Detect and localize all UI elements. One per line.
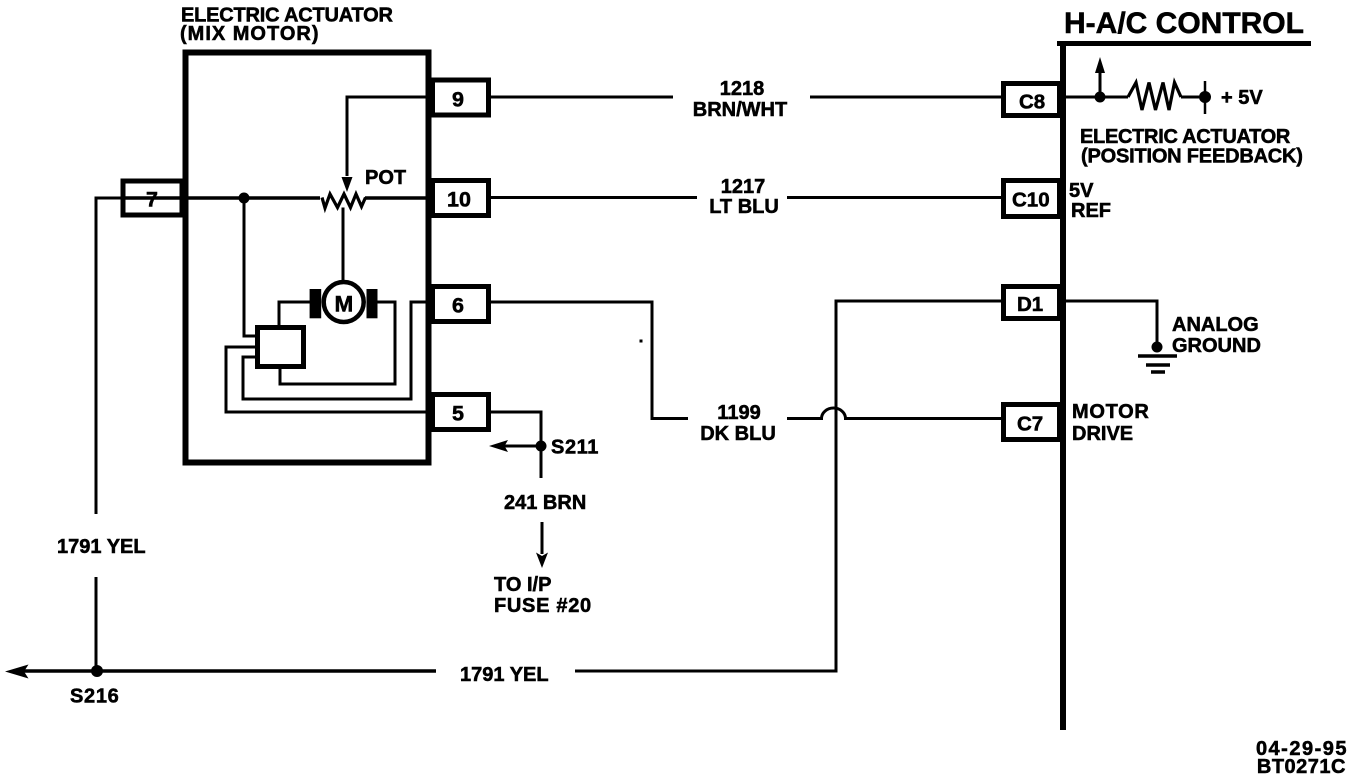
actuator box (MIX MOTOR) [186, 53, 429, 463]
svg-text:BRN/WHT: BRN/WHT [693, 99, 787, 121]
wire: C8 to +5V [1066, 96, 1128, 99]
label: 1218 BRN/WHT [693, 78, 787, 121]
gearbox (small box) [258, 328, 304, 367]
svg-text:(POSITION FEEDBACK): (POSITION FEEDBACK) [1081, 146, 1303, 168]
label: TO I/P FUSE #20 [494, 574, 592, 617]
wire: bottom right segment up to D1 [575, 301, 1002, 671]
wire: pin 9 internal feed to wiper [347, 97, 433, 176]
svg-text:FUSE #20: FUSE #20 [494, 595, 592, 617]
node on C8 wire [1095, 92, 1106, 103]
resistor [1128, 83, 1181, 111]
wire: POT wiper down to motor [342, 208, 345, 281]
svg-text:1791 YEL: 1791 YEL [57, 536, 146, 558]
ground symbol [1138, 356, 1177, 372]
label: ANALOG GROUND [1172, 314, 1261, 357]
pin 10 [433, 181, 489, 216]
node: junction on pin7 line [239, 193, 250, 204]
svg-text:C10: C10 [1012, 189, 1050, 212]
wire: left brush to gearbox top [279, 302, 310, 326]
connector C7 [1004, 405, 1060, 440]
svg-text:+ 5V: + 5V [1221, 87, 1263, 109]
svg-text:REF: REF [1071, 200, 1111, 222]
svg-text:LT BLU: LT BLU [709, 196, 779, 218]
svg-text:(MIX MOTOR): (MIX MOTOR) [180, 23, 320, 45]
wiper arrow (down onto POT) [342, 177, 353, 192]
svg-text:1217: 1217 [721, 176, 766, 198]
wire after resistor [1181, 96, 1205, 99]
svg-text:C8: C8 [1019, 91, 1045, 114]
svg-text:1199: 1199 [717, 402, 760, 424]
wire: pin 10 to C10 (right segment) [787, 196, 1002, 199]
svg-text:MOTOR: MOTOR [1072, 401, 1150, 423]
label: ELECTRIC ACTUATOR (MIX MOTOR) [180, 5, 394, 46]
svg-text:TO I/P: TO I/P [494, 574, 551, 596]
wire: pin 9 to C8 (left segment) [489, 96, 673, 99]
svg-text:GROUND: GROUND [1172, 335, 1261, 357]
connector D1 [1004, 287, 1060, 319]
splice S216 [91, 665, 103, 677]
label: date/code [1256, 738, 1348, 778]
label: ELECTRIC ACTUATOR (POSITION FEEDBACK) [1080, 126, 1303, 168]
pin 7 [123, 181, 182, 215]
wire: 1199 to C7 with hop over ground wire [787, 408, 1002, 419]
wire: junction down to gearbox [244, 198, 255, 336]
connector C8 [1004, 84, 1060, 116]
wire: D1 to analog ground [1066, 301, 1157, 342]
wire: pin 7 to pin 10 line [123, 196, 433, 200]
svg-text:DRIVE: DRIVE [1072, 423, 1133, 445]
motor brush left [310, 289, 322, 318]
svg-text:S211: S211 [551, 437, 599, 459]
pin 5 [433, 395, 489, 430]
svg-text:H-A/C CONTROL: H-A/C CONTROL [1064, 7, 1304, 40]
svg-text:5: 5 [452, 402, 464, 426]
wire: bottom 1791 YEL run with S216 [20, 669, 436, 673]
scan speck [640, 340, 643, 343]
svg-text:D1: D1 [1017, 293, 1043, 316]
svg-text:POT: POT [365, 167, 406, 189]
svg-text:BT0271C: BT0271C [1257, 756, 1346, 778]
arrow up from node [1099, 72, 1102, 93]
svg-text:6: 6 [452, 294, 464, 318]
potentiometer POT zigzag [322, 194, 366, 208]
label: MOTOR DRIVE [1072, 401, 1150, 445]
svg-text:10: 10 [447, 188, 471, 212]
label: 5V REF [1069, 180, 1111, 222]
label: 1199 DK BLU [700, 402, 776, 445]
svg-text:C7: C7 [1017, 413, 1043, 436]
svg-text:ANALOG: ANALOG [1172, 314, 1259, 336]
+5V terminal node [1204, 81, 1207, 114]
svg-text:1218: 1218 [720, 78, 765, 100]
wire: gearbox bottom loop to right brush [280, 302, 395, 384]
svg-text:DK BLU: DK BLU [700, 423, 776, 445]
svg-text:241 BRN: 241 BRN [504, 492, 586, 514]
wire: pin 6 down-over to 1199 [489, 302, 688, 419]
label: 1217 LT BLU [709, 176, 779, 218]
wire: pin 5 internal [226, 347, 433, 412]
H-A/C control line [1060, 44, 1066, 730]
wire: pin 9 to C8 (right segment) [810, 96, 1002, 99]
arrow left at S211 [502, 445, 541, 448]
wire: pin 7 down (1791 YEL) [96, 198, 123, 671]
wire: pin 10 to C10 (left segment) [489, 196, 697, 199]
wire: pin 6 internal [243, 302, 433, 399]
ground node dot [1152, 342, 1163, 353]
svg-text:1791 YEL: 1791 YEL [460, 664, 549, 686]
pin 6 [433, 287, 489, 322]
svg-text:M: M [335, 292, 354, 317]
pin 9 [433, 80, 489, 115]
arrow: down to fuse [541, 522, 544, 554]
splice S211 [536, 441, 547, 452]
svg-text:9: 9 [452, 88, 464, 112]
motor M [324, 282, 364, 322]
wire: pin 5 to S211 [489, 412, 541, 478]
connector C10 [1004, 181, 1060, 217]
svg-text:5V: 5V [1069, 180, 1094, 202]
arrow left at S216 [5, 665, 29, 679]
underline of title [1057, 41, 1311, 46]
svg-text:S216: S216 [70, 686, 120, 708]
motor brush right [367, 289, 378, 318]
